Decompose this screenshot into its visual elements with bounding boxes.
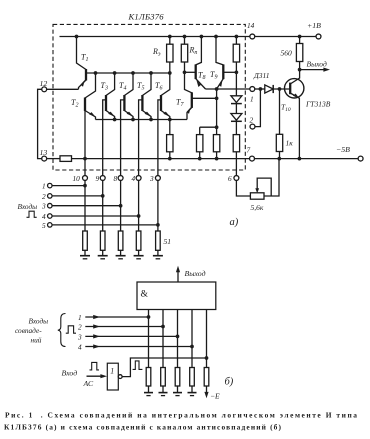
svg-text:4: 4 [132,174,136,183]
svg-text:Д311: Д311 [253,71,269,80]
output arrow Vyhod (b) [177,269,179,282]
resistor Rp [184,37,186,45]
svg-text:2: 2 [78,323,82,332]
svg-text:1: 1 [250,95,254,104]
wire pin6 to potentiometer [236,180,250,196]
ground b4 [191,386,193,393]
pin 12 circle [42,87,47,92]
output arrow Vyhod [300,69,326,71]
svg-text:4: 4 [78,343,82,352]
svg-text:12: 12 [40,79,48,88]
svg-text:Т5: Т5 [137,81,144,92]
bias resistor b2 [161,368,166,387]
input wire 1 [52,185,85,187]
input terminal 1 [48,183,53,188]
transistor T10 GT313V [285,79,304,98]
wire T8/T9 emitters to pin 1 [206,88,251,90]
svg-text:Рис. 1 . Схема совпадений на: Рис. 1 . Схема совпадений на интегрально… [5,411,357,420]
svg-text:ний: ний [31,335,42,344]
pin 14 circle [250,34,255,39]
wire base rail of T1 (collector bus of T2-T6) [86,72,170,74]
pin 2 circle [250,124,255,129]
svg-text:3: 3 [77,332,82,341]
wire T2 base to pin 10 [84,111,86,176]
resistor on T9 base [235,37,237,45]
ground b2 [162,386,164,393]
svg-text:51: 51 [164,237,172,246]
pin 6 circle [234,176,239,181]
pulse symbol coincidence inputs [66,326,76,333]
input resistor 4 [136,231,141,250]
svg-text:Т8: Т8 [198,71,205,82]
coincidence input wire 4 [85,346,192,348]
wire T6 base to pin 3 [158,100,161,176]
svg-text:5: 5 [42,221,46,230]
pin 4 circle [136,176,141,181]
label К1ЛБ376 [128,12,165,22]
label Vhody [18,202,38,211]
bias resistor b4 [190,368,195,387]
svg-text:Выход: Выход [185,269,206,278]
ground 4 [138,250,140,255]
svg-text:1: 1 [78,313,82,322]
wire to pin 6 [235,152,237,176]
svg-text:ГТ313В: ГТ313В [305,100,331,109]
svg-text:5,6к: 5,6к [251,203,264,212]
svg-text:Т6: Т6 [155,81,162,92]
svg-text:а): а) [230,217,239,228]
IC dashed box К1ЛБ376 [53,24,245,170]
ground b1 [148,386,150,393]
svg-text:560: 560 [281,49,293,58]
AC input arrow [87,375,104,377]
pin 13 circle [42,156,47,161]
svg-text:10: 10 [73,174,81,183]
svg-text:14: 14 [247,21,255,30]
transistor T2 [85,73,96,98]
label b) [225,377,234,388]
svg-text:+1В: +1В [307,21,321,30]
wire T9 base node to diode chain [235,72,237,96]
pin 10 circle [83,176,88,181]
gate input column 2 [162,310,164,368]
transistor T1 [77,37,87,70]
label Vhod AC [62,368,95,388]
wire pin2 up to D311 anode node [255,89,261,127]
svg-text:Rп: Rп [189,46,198,57]
svg-text:8: 8 [114,174,118,183]
diode D-b [231,114,242,121]
svg-text:Т1: Т1 [81,53,88,64]
wires pin columns down to input resistors [84,180,86,231]
svg-text:Т10: Т10 [281,103,291,113]
transistor T6 [161,73,170,96]
resistor Re [169,37,171,45]
svg-text:б): б) [225,377,234,388]
input terminal 3 [48,203,53,208]
input resistor 2 [100,231,105,250]
svg-text:6: 6 [228,174,232,183]
pin 8 circle [118,176,123,181]
resistor 1k [279,89,281,134]
svg-text:АС: АС [83,379,95,388]
pin 1 circle [250,87,255,92]
svg-text:Т3: Т3 [101,81,108,92]
svg-text:Входы: Входы [18,202,38,211]
transistor T4 [124,73,133,96]
wire T5 base to pin 4 [139,100,143,176]
ground 5 [157,250,159,255]
svg-text:Т4: Т4 [119,81,126,92]
svg-text:3: 3 [149,174,154,183]
svg-text:К1ЛБ376: К1ЛБ376 [128,12,165,22]
coincidence input wire 3 [85,335,177,337]
ground 1 [84,250,86,255]
svg-text:Входы: Входы [29,317,49,326]
resistor emitter-rail load [169,120,171,135]
gate input column 1 [148,310,150,368]
svg-text:9: 9 [96,174,100,183]
pulse symbol AC input [90,362,100,370]
svg-text:Т2: Т2 [71,98,78,109]
svg-text:13: 13 [40,148,48,157]
resistor below diode chain [233,135,239,152]
wire pin7 to -5V terminal [254,158,358,160]
gate input column 4 [191,310,193,368]
svg-text:1: 1 [42,182,46,191]
transistor T5 [142,73,151,96]
svg-text:Выход: Выход [307,60,327,69]
input terminal 2 [48,194,53,199]
coincidence input wire 2 [85,326,163,328]
input wire 5 [52,224,158,226]
input terminal 5 [48,223,53,228]
wire bridging two load resistors [200,126,217,128]
diode D-a [231,96,242,103]
pulse symbol one-shot output [133,361,143,370]
svg-text:2: 2 [42,192,46,201]
svg-text:2: 2 [250,116,254,125]
input number labels [77,313,82,352]
transistor T3 [106,73,115,96]
svg-text:3: 3 [41,202,46,211]
AND gate block & [137,282,216,310]
wire pin1 to diode D311 anode node [255,88,265,90]
gate input column 5 (AC) [206,310,208,368]
svg-text:−Е: −Е [210,392,220,401]
svg-text:Rэ: Rэ [152,47,161,58]
svg-text:совпаде-: совпаде- [15,326,42,335]
input resistor 5, 51 Ohm [156,231,161,250]
transistor T8 [196,37,202,65]
-5V terminal [358,156,363,161]
inverter circle on one-shot output [118,375,122,379]
resistor in series with pin 13 [60,156,72,162]
wire emitter rail of T2-T6 [96,119,188,121]
transistor T9 [216,37,223,65]
potentiometer 5,6k [250,193,264,199]
ground 3 [120,250,122,255]
wire pin13 resistor to -5V rail and pin 7 [72,158,250,160]
input wire 3 [52,205,121,207]
+1V terminal [316,34,321,39]
pin 7 circle [250,156,255,161]
label a) [230,217,239,228]
junction dots figure a [75,35,302,227]
bias resistor b1 [146,368,151,387]
wire emitter node down to T7 base node and load resistors [216,89,218,127]
bias resistor b5 [204,368,209,387]
gate input column 3 [177,310,179,368]
junction dots figure b [147,315,209,360]
brace [58,314,66,347]
svg-text:К1ЛБ376 (а) и схема совпадений: К1ЛБ376 (а) и схема совпадений с каналом… [4,423,282,432]
ground b3 [177,386,179,393]
diode D311 [265,85,273,93]
svg-text:1: 1 [110,367,114,376]
wire T3 base to pin 9 [103,100,106,176]
svg-text:4: 4 [42,212,46,221]
pin 9 circle [100,176,105,181]
bias resistor b3 [175,368,180,387]
resistor 560 [299,37,301,44]
transistor T7 [185,72,192,93]
svg-text:&: & [141,290,149,300]
coincidence input wire 1 [85,316,148,318]
ground 2 [102,250,104,255]
wire external loop pin12-pin13 [38,89,42,158]
svg-text:Т7: Т7 [176,98,184,109]
resistor load B [216,127,218,134]
-E supply arrow [206,386,208,395]
svg-text:Т9: Т9 [210,70,217,81]
wire pin13 line [46,158,60,160]
svg-text:−5В: −5В [336,145,350,154]
input resistor 1 [83,231,88,250]
pulse symbol inputs [27,211,37,217]
wire pin 12 to T1 emitter [46,88,78,90]
one-shot block 1 [107,363,118,390]
wire top supply rail to pin 14 [60,36,251,38]
wire pin14 to +1V terminal [255,36,317,38]
wire T4 base to pin 8 [121,100,125,176]
wire one-shot output to column 5 [122,358,206,377]
resistor load A [199,127,201,134]
input wire 2 [52,195,103,197]
input terminal 4 [48,214,53,219]
pin 3 circle [155,176,160,181]
svg-text:1к: 1к [286,139,294,148]
input arrowheads [93,315,100,349]
label Vhody sovpadeniy [15,317,48,345]
input resistor 3 [118,231,123,250]
svg-text:Вход: Вход [62,368,78,377]
svg-text:7: 7 [247,146,251,155]
input wire 4 [52,215,139,217]
